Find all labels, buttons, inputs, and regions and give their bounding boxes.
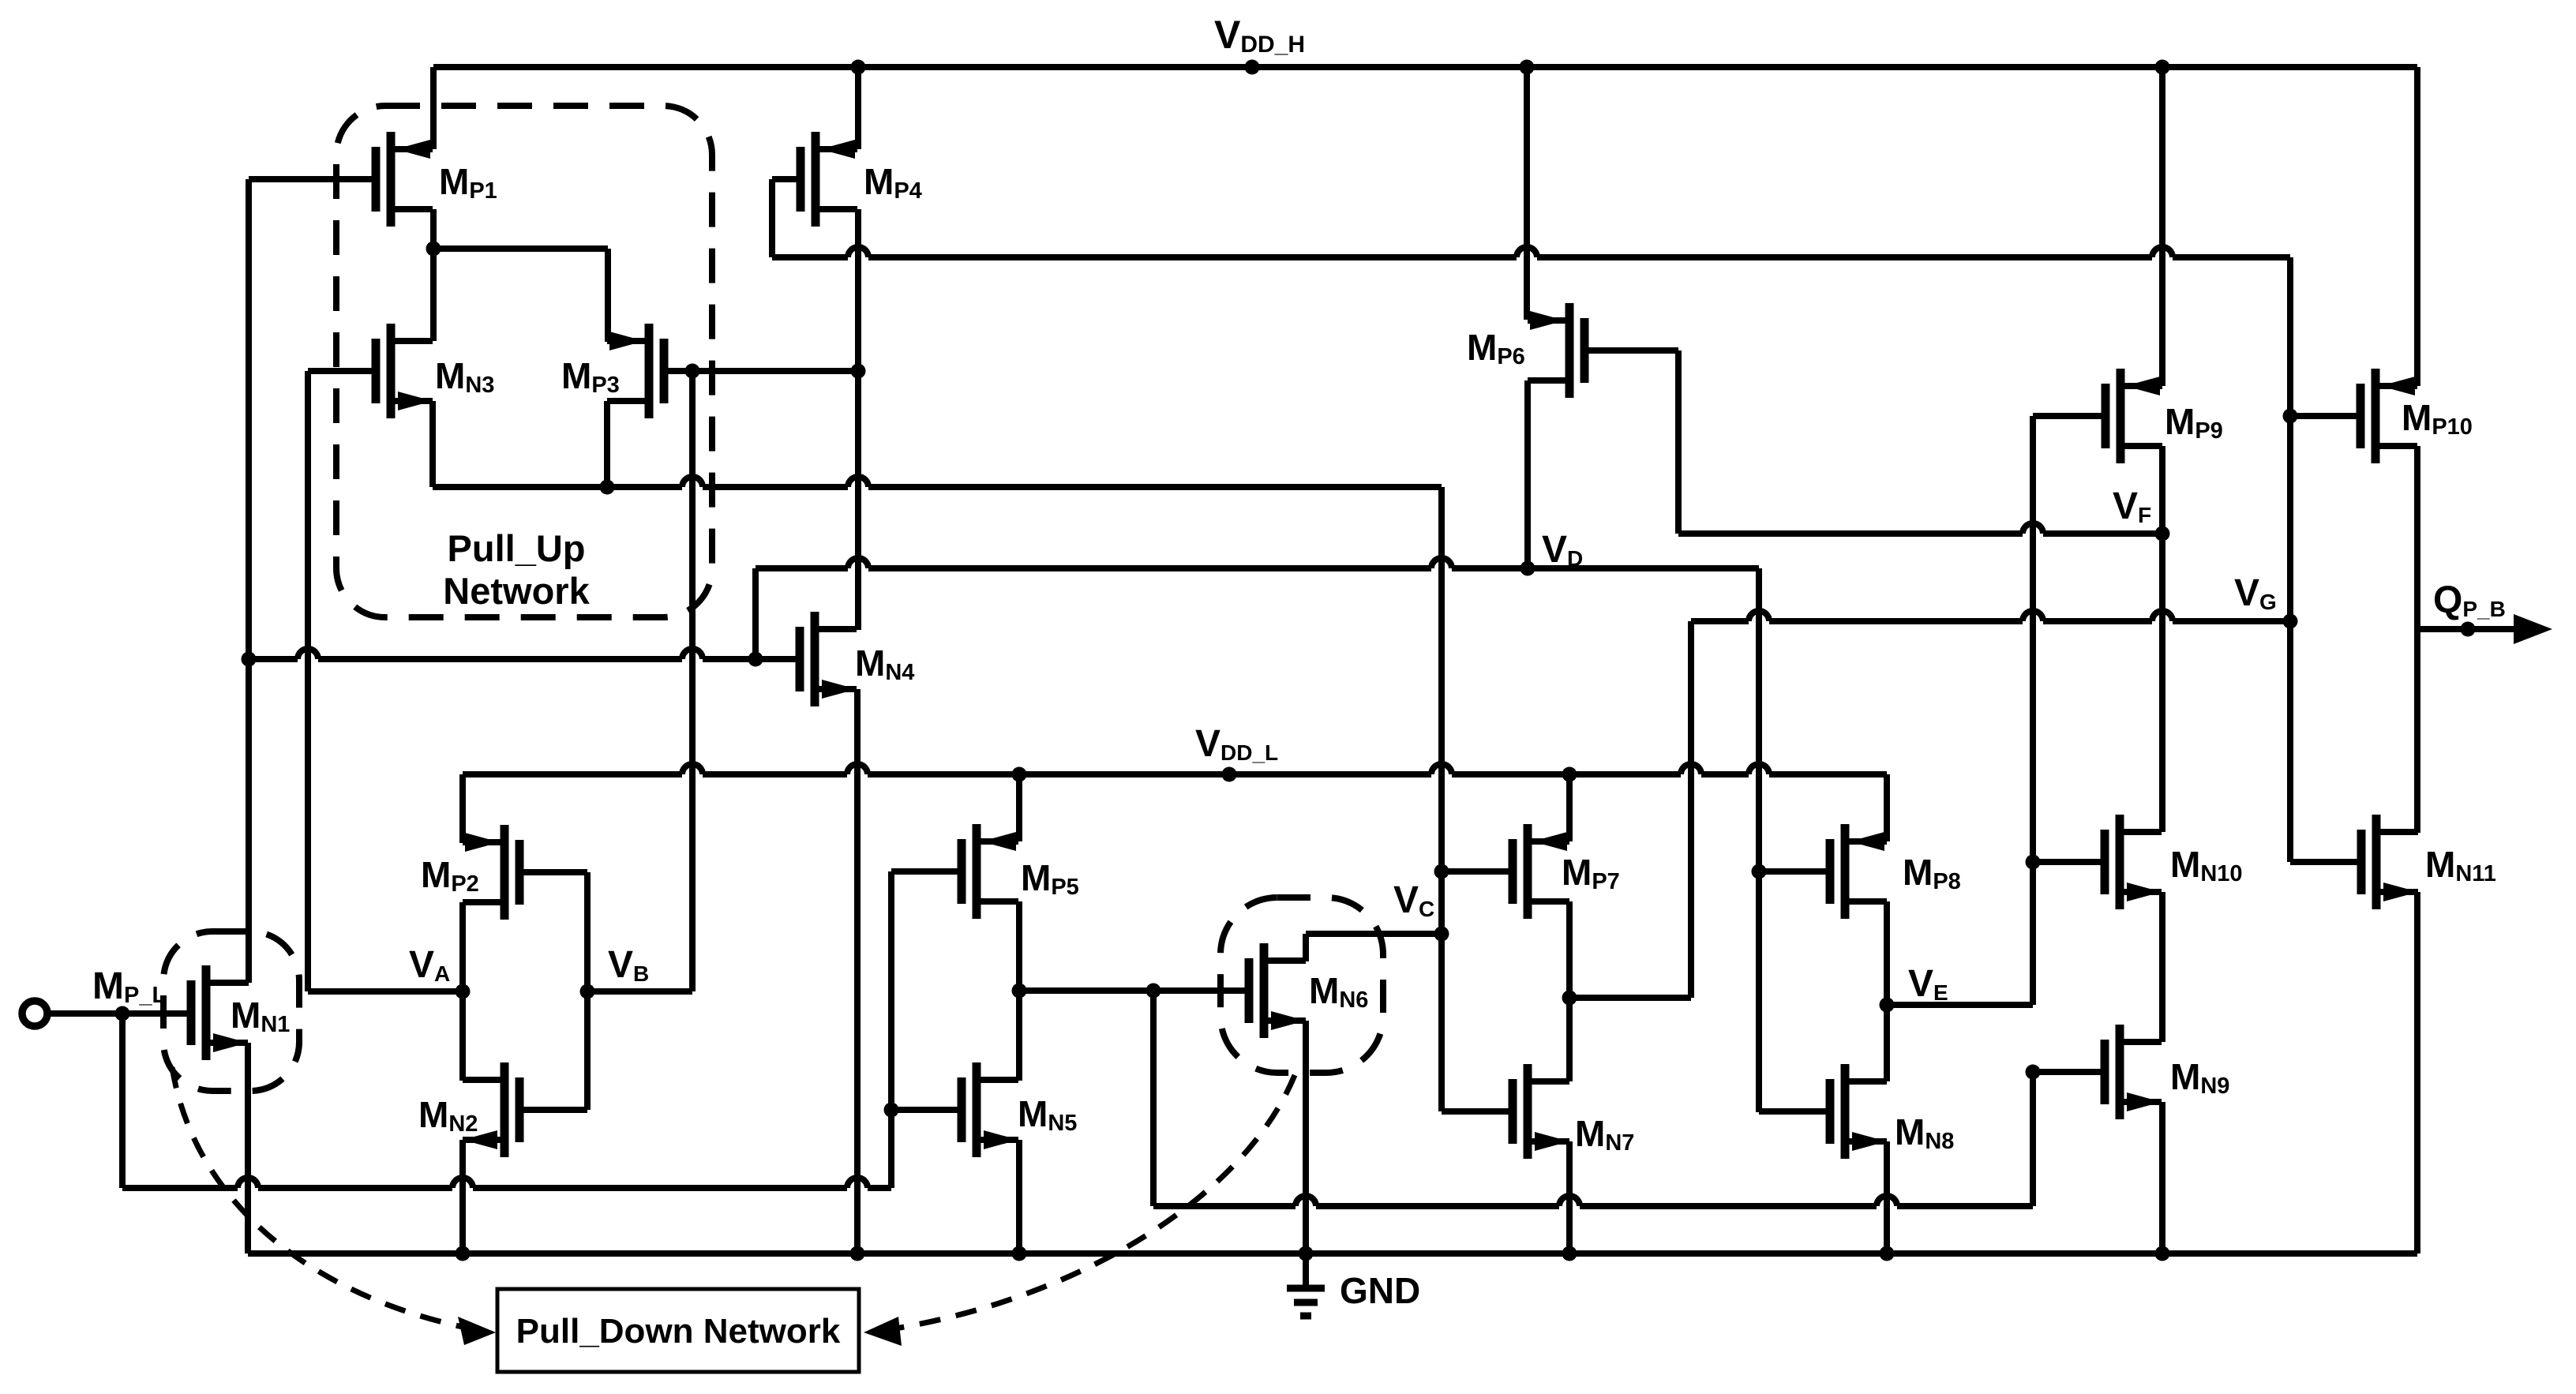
node VDD_H junction MP9 [2155, 60, 2170, 75]
node VE [1880, 963, 1948, 1013]
wire VB vertical [584, 872, 591, 1110]
wire MN8 gate lead [1759, 1108, 1830, 1115]
dashed arrow MN1 to pull-down [172, 1067, 496, 1345]
transistor MP8 [1830, 824, 1961, 919]
wire VC wire [1306, 931, 1442, 937]
node y831 left [242, 652, 257, 667]
wire MP1 drain riser [430, 209, 437, 341]
wire MP5 gate lead [891, 868, 958, 875]
wire gate bus riser [888, 871, 894, 1188]
wire MP10 drain riser [2414, 446, 2420, 833]
wire MN3 gate vertical [305, 371, 311, 991]
transistor MP7 [1513, 824, 1620, 919]
node GND junction MN4 [850, 1246, 865, 1261]
wire MN2 source riser [459, 1140, 466, 1253]
transistor MP5 [962, 824, 1079, 919]
wire VC vertical [1438, 487, 1445, 1111]
wire MN8 source riser [1884, 1141, 1890, 1253]
wire VG wire [1691, 611, 2290, 621]
wire VG riser wire [1569, 621, 1691, 998]
transistor MN4 [800, 612, 914, 706]
svg-text:Pull_Up: Pull_Up [448, 527, 586, 569]
node GND junction MN2 [456, 1246, 471, 1261]
wire MN5 source riser [1016, 1140, 1022, 1253]
wire VA wire [308, 988, 463, 995]
wire MN7 source riser [1566, 1141, 1573, 1253]
wire MN9 gate riser [2030, 1072, 2036, 1206]
wire MN6 source riser [1303, 1021, 1309, 1253]
transistor MP6 [1467, 303, 1584, 398]
wire VDD_L rail [463, 764, 1887, 774]
wire MN5 gate lead [891, 1107, 958, 1113]
node MP1 drain [426, 242, 441, 257]
wire MN9 source riser [2159, 1102, 2165, 1253]
transistor MP2 [421, 825, 519, 920]
node MP5 drain [1012, 984, 1027, 999]
wire VB link [587, 988, 692, 995]
wire MN4 gate lead dot [748, 652, 763, 667]
node MP8 gate [1752, 864, 1767, 879]
node VB [580, 944, 650, 999]
wire MP5 drain riser [1016, 901, 1022, 1081]
wire MP8 gate lead [1759, 868, 1830, 875]
svg-text:Network: Network [443, 570, 590, 612]
wire MN11 drain riser [2414, 624, 2420, 832]
wire MN11 source riser [2414, 892, 2420, 1253]
wire MN9 gate bus y1528 [1153, 1196, 2033, 1206]
node GND junction MN6 [1299, 1246, 1314, 1261]
node MP7 gate [1434, 864, 1449, 879]
wire MP6 drain riser [1524, 380, 1531, 568]
node MN10 gate [2026, 855, 2041, 870]
wire MP3 drain riser [604, 401, 610, 487]
wire VD down right [1756, 568, 1762, 1112]
wire MP5 source riser [1016, 774, 1022, 841]
wire MP4 drain vertical [855, 209, 861, 630]
node VD [1520, 529, 1584, 576]
node input MP_L [92, 965, 166, 1021]
node GND junction MN9 [2155, 1246, 2170, 1261]
wire MP9 gate vertical VE [2030, 416, 2036, 1005]
wire MP1 source riser [430, 67, 437, 149]
wire MP2 drain riser [459, 902, 466, 1081]
wire MN1 drain riser [248, 980, 249, 986]
transistor MN11 [2361, 815, 2496, 909]
transistor MN7 [1513, 1064, 1634, 1159]
wire MP10 source riser [2414, 67, 2420, 386]
wire MP1 gate feedback vertical [246, 179, 252, 983]
wire MP3 gate to MP4 drain [692, 368, 858, 374]
wire MP4 gate loop [772, 179, 797, 257]
node MP10 gate [2283, 409, 2298, 424]
wire MN9 gate lead [2032, 1069, 2101, 1075]
wire MP7 drain riser [1566, 901, 1573, 1081]
wire MN3 source riser [429, 401, 436, 487]
transistor MN1 [191, 965, 290, 1060]
transistor MP9 [2105, 369, 2223, 463]
node VF [2113, 485, 2170, 541]
pull-up network dashed box [336, 106, 712, 617]
transistor MN6 [1249, 943, 1368, 1038]
wire MN6 gate riser [1150, 991, 1157, 1206]
node MN6 gate junction [1146, 984, 1161, 999]
node VDD_L label dot [1195, 723, 1278, 782]
ground [1287, 1253, 1420, 1316]
node VDD_H junction MP6 [1520, 60, 1535, 75]
wire MN3 gate lead [308, 368, 376, 374]
node GND junction MN8 [1880, 1246, 1895, 1261]
node VG [2234, 572, 2298, 629]
wire MP8 drain riser [1884, 901, 1890, 1081]
transistor MN9 [2105, 1025, 2229, 1119]
wire input riser [119, 1014, 126, 1188]
svg-text:GND: GND [1340, 1270, 1420, 1311]
wire MN1 source riser [245, 1043, 251, 1253]
wire MN10 drain riser [2159, 534, 2165, 832]
wire QP_B output [2417, 614, 2552, 644]
wire MP9 source riser [2159, 67, 2165, 386]
transistor MN8 [1830, 1064, 1954, 1159]
wire MN10 source riser [2159, 892, 2165, 1042]
wire MP1 gate lead [249, 176, 372, 182]
wire MN10 gate lead [2032, 859, 2101, 865]
wire MP8 source riser [1884, 774, 1890, 841]
wire MP9 gate lead [2033, 413, 2105, 419]
node MP4 drain junction [851, 364, 866, 379]
transistor MP1 [376, 132, 497, 227]
wire MN3 MP3 drain rail [433, 477, 1442, 487]
wire gate bus y1505 [122, 1178, 891, 1188]
wire MP6 gate lead [1588, 350, 1678, 534]
wire VB riser [689, 371, 696, 991]
wire MP9 drain riser [2159, 446, 2165, 534]
node VDD_H junction MP4 [851, 60, 866, 75]
node MP3 drain [600, 480, 615, 495]
node MN5 gate [884, 1103, 899, 1118]
node GND junction MN5 [1012, 1246, 1027, 1261]
wire MN1 drain gate wire y831 [249, 649, 800, 659]
node MP7 drain [1562, 991, 1577, 1006]
wire MN2 gate lead [523, 1107, 587, 1113]
wire VDD_H rail [433, 64, 2417, 70]
transistor MP4 [801, 132, 922, 227]
transistor MP3 [561, 324, 664, 418]
ellipse around MN6 [1221, 897, 1383, 1073]
wire input [47, 1010, 191, 1017]
wire MP7 source riser [1566, 774, 1573, 841]
transistor MN3 [376, 324, 494, 418]
node VC [1393, 879, 1449, 942]
node GND junction MN7 [1562, 1246, 1577, 1261]
node VDD_H label dot [1214, 13, 1305, 75]
wire MN6 drain jog [1303, 934, 1309, 961]
wire VF wire [1678, 523, 2162, 534]
input terminal circle [22, 1001, 47, 1026]
wire MP1 drain to MP3 source [433, 249, 608, 342]
wire MP4 source riser [855, 67, 861, 149]
pull-down network box [497, 1289, 859, 1372]
wire MN4 source riser [854, 689, 861, 1253]
wire MP2 gate lead [523, 869, 587, 875]
dashed arrow MN6 to pull-down [864, 1075, 1295, 1346]
ellipse around MN1 [163, 931, 299, 1091]
svg-text:Pull_Down Network: Pull_Down Network [516, 1312, 841, 1351]
node MP7 source [1562, 767, 1577, 782]
node MP3 gate junction [685, 364, 700, 379]
wire MP10 gate lead [2290, 413, 2360, 419]
wire VD left riser [752, 568, 759, 659]
wire MP2 source riser [459, 774, 466, 843]
transistor MN2 [418, 1062, 519, 1157]
wire GND rail [248, 1250, 2417, 1257]
pull-up network text [443, 527, 590, 612]
wire MP7 gate lead [1442, 868, 1513, 875]
node MP5 source [1012, 767, 1027, 782]
node QP_B [2433, 579, 2506, 637]
transistor MN5 [962, 1062, 1077, 1157]
node MN9 gate [2026, 1065, 2041, 1080]
transistor MN10 [2105, 815, 2243, 909]
wire MP10 gate vertical [2287, 257, 2293, 862]
node VA [409, 944, 471, 999]
wire VD wire [756, 558, 1759, 568]
wire VG long wire y326 [772, 247, 2290, 257]
wire MN11 gate lead [2290, 859, 2357, 865]
wire MP5 drain to MN6 gate [1019, 987, 1249, 994]
wire VE wire [1887, 1002, 2033, 1008]
wire MP3 gate lead [668, 368, 692, 374]
transistor MP10 [2360, 369, 2473, 463]
wire MN7 gate lead [1442, 1108, 1513, 1115]
wire MP6 source riser [1524, 67, 1530, 320]
